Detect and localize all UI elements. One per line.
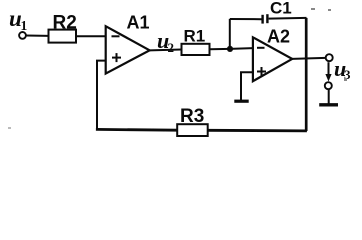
wire junction to A2 inverting input [230, 47, 253, 50]
terminal u3 lower [325, 82, 332, 89]
wire lower terminal to ground [328, 89, 330, 103]
svg-text:2: 2 [168, 40, 175, 55]
resistor R2 [49, 30, 77, 43]
svg-text:R3: R3 [180, 106, 204, 127]
resistor R3 [177, 124, 208, 136]
wire A2 output to terminal u3 [292, 58, 325, 59]
ground at A2 noninverting input [234, 100, 248, 103]
label u3 [334, 56, 351, 82]
label u1 [9, 6, 28, 33]
wire A2 noninverting input stub [241, 72, 253, 100]
wire A1 output to R1 (node u2) [150, 49, 182, 52]
wire top to C1 left plate [230, 18, 262, 20]
wire C1 right plate to right riser [269, 17, 307, 20]
wire riser junction to C1 [229, 19, 231, 49]
noise specks [8, 8, 347, 129]
wire u1 to R2 [26, 35, 48, 37]
wire R2 to A1 inverting input [76, 35, 105, 37]
A2 plus sign [257, 67, 266, 76]
svg-text:C1: C1 [270, 0, 292, 18]
svg-text:R1: R1 [184, 27, 206, 46]
A1 plus sign [112, 53, 121, 62]
junction node [227, 46, 233, 52]
label u2 [157, 28, 174, 55]
svg-text:A2: A2 [267, 27, 290, 47]
bottom rail right segment [208, 129, 307, 132]
ground at lower terminal [319, 103, 338, 106]
svg-text:1: 1 [21, 18, 28, 33]
A2 minus sign [257, 47, 265, 49]
terminal u3 upper [326, 54, 333, 61]
wire A1 noninverting input stub [97, 61, 106, 130]
arrow u3 [325, 62, 331, 81]
right vertical wire (C1 return and feedback to R3) [305, 18, 308, 131]
capacitor C1 [263, 14, 268, 23]
wire R1 to junction [210, 48, 231, 50]
bottom rail left segment [96, 128, 177, 132]
svg-text:A1: A1 [127, 13, 150, 33]
op-amp A2 [253, 37, 292, 81]
svg-text:R2: R2 [53, 13, 77, 34]
A1 minus sign [112, 35, 120, 37]
resistor R1 [182, 44, 210, 55]
terminal u1 [19, 32, 26, 39]
op-amp A1 [106, 26, 150, 73]
